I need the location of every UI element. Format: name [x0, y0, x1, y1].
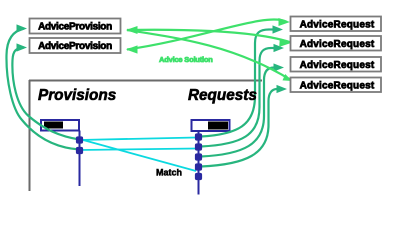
box AdviceRequest 2: [291, 36, 382, 51]
wire: requests list spine (navy vertical): [198, 131, 200, 195]
svg-text:AdviceRequest: AdviceRequest: [300, 20, 375, 31]
arrowhead into AdviceRequest1: [273, 25, 284, 33]
arrowhead at AdviceRequest2 end: [279, 39, 291, 47]
node provision 1: [76, 136, 83, 143]
node request B: [195, 143, 202, 150]
svg-text:AdviceRequest: AdviceRequest: [300, 81, 375, 92]
container box (Provisions/Requests viewport), top edge: [29, 80, 262, 82]
wire: sea-green curve node1 -> AdviceProvision2 (inner left sweep): [12, 48, 79, 140]
arrowhead at AdviceRequest4 end: [283, 74, 293, 81]
svg-text:AdviceProvision: AdviceProvision: [38, 41, 112, 52]
box AdviceRequest 4: [291, 78, 382, 93]
node request D: [195, 163, 202, 170]
wire: bright green AdviceSolution link AdviceProvision1 <-> AdviceRequest4: [127, 30, 290, 80]
wire: sea-green curve nodeC -> AdviceRequest3: [201, 68, 274, 157]
box AdviceRequest 3: [291, 57, 382, 72]
provisions header label blob: [44, 122, 63, 129]
arrowhead at AdviceRequest1 end: [279, 18, 291, 26]
svg-text:AdviceRequest: AdviceRequest: [300, 39, 375, 50]
node request A: [195, 133, 202, 140]
wire: cyan match link node1 -> nodeD (diagonal): [80, 139, 197, 171]
node request C: [195, 153, 202, 160]
arrowhead into AdviceProvision2: [17, 43, 28, 51]
box AdviceProvision 1: [30, 19, 121, 34]
arrowhead into AdviceRequest2: [274, 44, 285, 52]
node provision 2: [76, 147, 83, 154]
arrowhead at AdviceProvision2 end: [126, 45, 138, 53]
svg-text:Match: Match: [156, 168, 182, 178]
wire: sea-green curve nodeD -> AdviceRequest4: [201, 89, 277, 167]
arrowhead at AdviceProvision1 end: [126, 26, 138, 34]
provisions list header box (navy): [41, 120, 79, 131]
arrowhead into AdviceProvision1: [17, 24, 28, 32]
svg-text:AdviceRequest: AdviceRequest: [300, 60, 375, 71]
wire: sea-green curve nodeB -> AdviceRequest2: [201, 48, 271, 147]
wire: sea-green curve nodeA -> AdviceRequest1: [201, 30, 269, 137]
node request E: [195, 173, 202, 180]
wire: bright green AdviceSolution link AdviceProvision2 <-> AdviceRequest1: [127, 19, 287, 49]
wire: cyan match link node2 -> nodeB: [80, 149, 197, 151]
svg-text:Advice Solution: Advice Solution: [159, 55, 213, 64]
svg-text:AdviceProvision: AdviceProvision: [38, 22, 112, 33]
container box left edge: [29, 80, 31, 191]
wire: cyan match link node1 -> nodeA: [80, 138, 197, 141]
arrowhead into AdviceRequest3: [274, 63, 285, 71]
box AdviceRequest 1: [291, 17, 382, 32]
wire: provisions list spine (navy vertical): [79, 131, 81, 187]
requests header label blob: [208, 122, 228, 130]
box AdviceProvision 2: [30, 38, 121, 53]
arrowhead into AdviceRequest4: [277, 85, 288, 93]
wire: sea-green curve node2 -> AdviceProvision1 (outer left sweep): [6, 29, 79, 150]
svg-text:Provisions: Provisions: [38, 87, 116, 104]
wire: bright green AdviceSolution link AdviceProvision1 <-> AdviceRequest2: [127, 30, 294, 44]
svg-text:Requests: Requests: [188, 87, 257, 104]
requests list header box (navy): [192, 120, 230, 131]
